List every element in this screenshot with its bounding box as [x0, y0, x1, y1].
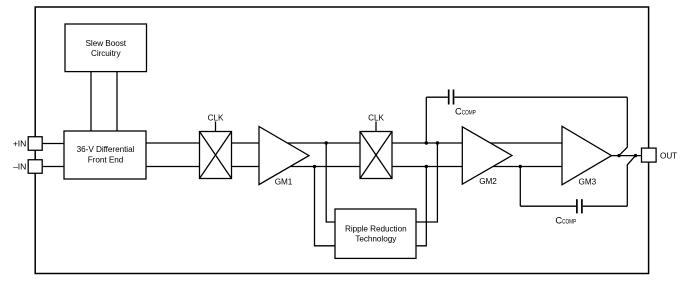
capacitor C_COMP (bottom) plates	[577, 199, 582, 213]
wire top compensation: horizontal right segment	[454, 96, 627, 98]
junction at output node (top C_COMP)	[617, 154, 620, 157]
svg-text:CLK: CLK	[368, 114, 384, 123]
svg-text:CCOMP: CCOMP	[455, 106, 476, 117]
wire bottom compensation: horizontal left segment	[520, 205, 576, 207]
wire ripple-reduction left-lower tap	[315, 167, 336, 246]
chopper switch CLK2 box	[360, 132, 392, 179]
wire GM3 output to OUT pin	[612, 155, 642, 157]
wire ripple-reduction right-lower tap	[416, 167, 426, 246]
svg-text:+IN: +IN	[13, 139, 26, 149]
pin -IN	[28, 160, 42, 174]
junction at ripple left-upper tap on upper rail	[325, 141, 328, 144]
wire bottom compensation: left vertical from lower rail	[519, 167, 521, 207]
block U2 36-V Differential Front End	[64, 131, 146, 179]
op-amp GM3	[562, 126, 612, 185]
svg-text:36-V Differential: 36-V Differential	[77, 145, 135, 154]
junction at bottom C_COMP tap on lower rail	[519, 165, 522, 168]
wire top compensation: right vertical down to output	[619, 97, 627, 155]
svg-text:Ripple Reduction: Ripple Reduction	[345, 224, 407, 233]
svg-text:GM2: GM2	[479, 177, 497, 186]
svg-text:GM1: GM1	[275, 177, 293, 186]
svg-text:Front End: Front End	[88, 155, 124, 164]
wire top compensation: horizontal left segment	[426, 96, 448, 98]
capacitor C_COMP (top) plates	[449, 90, 454, 105]
wire bottom compensation: horizontal right segment	[583, 205, 628, 207]
chopper switch CLK1 box	[200, 132, 232, 179]
block U3 Ripple Reduction Technology	[335, 209, 416, 258]
wire lower signal rail	[145, 166, 591, 168]
svg-text:GM3: GM3	[579, 177, 597, 186]
wire upper signal rail	[145, 142, 589, 144]
pin OUT	[642, 148, 657, 162]
wire slew boost to front end (left)	[90, 72, 92, 131]
junction at top C_COMP tap on upper rail	[425, 141, 428, 144]
svg-text:Technology: Technology	[355, 234, 397, 243]
wire CLK1 label tick	[215, 122, 217, 132]
svg-text:OUT: OUT	[660, 151, 677, 160]
wire +IN stub	[42, 143, 64, 145]
svg-text:CCOMP: CCOMP	[555, 215, 576, 226]
op-amp GM2	[462, 127, 512, 184]
op-amp GM1	[259, 127, 309, 185]
wire -IN stub	[42, 166, 64, 168]
junction at output node (bottom C_COMP)	[634, 154, 637, 157]
svg-text:Slew Boost: Slew Boost	[86, 39, 127, 48]
wire ripple-reduction left-upper tap	[326, 143, 335, 222]
svg-text:CLK: CLK	[208, 114, 224, 123]
wire CLK2 label tick	[375, 122, 377, 132]
junction at ripple left-lower tap on lower rail	[313, 165, 316, 168]
block U1 Slew Boost Circuitry	[65, 24, 147, 72]
svg-text:–IN: –IN	[13, 162, 26, 172]
wire bottom compensation: right vertical up to output	[627, 156, 635, 207]
wire ripple-reduction right-upper tap	[416, 143, 437, 222]
svg-text:Circuitry: Circuitry	[91, 49, 122, 58]
junction at ripple right-lower tap on lower rail	[425, 165, 428, 168]
wire top compensation: left vertical drop to upper rail	[425, 97, 427, 143]
pin +IN	[28, 137, 42, 151]
wire slew boost to front end (right)	[116, 72, 118, 131]
junction at ripple right-upper tap on upper rail	[436, 141, 439, 144]
